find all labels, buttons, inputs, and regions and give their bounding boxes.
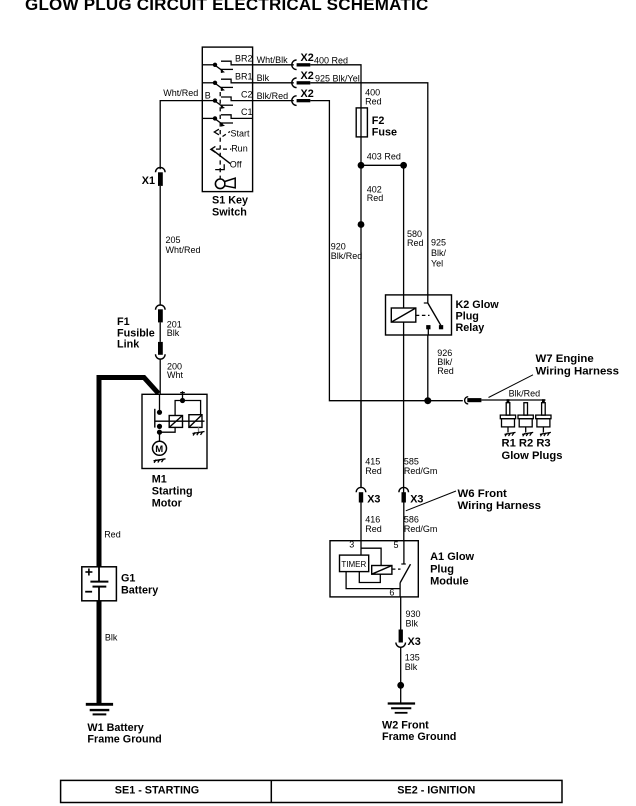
M1 starting motor box xyxy=(142,394,207,468)
svg-text:925 Blk/Yel: 925 Blk/Yel xyxy=(315,74,360,84)
glow plug R2 xyxy=(518,403,533,437)
S1 contact row C2 xyxy=(202,97,252,109)
relay K2 box xyxy=(386,295,452,335)
svg-text:Blk: Blk xyxy=(406,619,419,629)
svg-text:Blk: Blk xyxy=(405,662,418,672)
S1 contact row C1 xyxy=(202,115,252,127)
connector X1 xyxy=(156,167,166,185)
W6 callout line xyxy=(406,491,456,511)
svg-text:X3: X3 xyxy=(408,636,421,648)
svg-text:W7 Engine: W7 Engine xyxy=(536,353,594,365)
wire 416 Red xyxy=(360,503,362,541)
M1 motor chassis ground xyxy=(154,459,166,463)
svg-text:Blk: Blk xyxy=(167,328,180,338)
glow plug R3 xyxy=(536,399,551,436)
wire 930 Blk xyxy=(400,597,402,630)
K2 coil xyxy=(391,295,416,335)
S1 contact row BR2 xyxy=(202,61,252,73)
S1 key symbol xyxy=(215,176,235,188)
svg-text:Wht/Red: Wht/Red xyxy=(166,245,201,255)
svg-text:Wht/Blk: Wht/Blk xyxy=(257,55,289,65)
ground W1 xyxy=(86,704,113,714)
svg-text:Switch: Switch xyxy=(212,206,247,218)
connector X3 right xyxy=(399,487,409,502)
A1 relay coil xyxy=(372,566,392,575)
connector X3 left xyxy=(356,487,366,502)
S1 contact row BR1 xyxy=(202,79,252,91)
svg-text:W6 Front: W6 Front xyxy=(458,488,508,500)
A1 TIMER box xyxy=(340,555,369,572)
svg-text:Red/Gm: Red/Gm xyxy=(404,524,438,534)
table SE1/SE2 xyxy=(61,780,562,802)
wire 415 Red xyxy=(360,401,362,487)
M1 internal input wire xyxy=(155,394,162,427)
ground W2 xyxy=(388,704,415,713)
wire 920 Blk/Red xyxy=(310,101,428,401)
svg-text:Red: Red xyxy=(365,524,382,534)
svg-text:Motor: Motor xyxy=(152,497,183,509)
M1 solenoid coil 1 xyxy=(169,416,182,428)
svg-text:W2 Front: W2 Front xyxy=(382,719,429,731)
connector W7 xyxy=(465,397,482,404)
svg-text:S1 Key: S1 Key xyxy=(212,195,248,207)
K2 dashed link xyxy=(416,314,430,316)
wire 403 Red xyxy=(361,137,404,165)
svg-text:BR2: BR2 xyxy=(235,54,253,64)
svg-text:X2: X2 xyxy=(301,52,314,64)
wire Wht/Red from S1 B terminal to X1 xyxy=(160,101,202,170)
svg-text:Relay: Relay xyxy=(456,322,485,334)
svg-text:Blk/: Blk/ xyxy=(431,248,447,258)
svg-text:Start: Start xyxy=(231,128,251,138)
svg-text:W1 Battery: W1 Battery xyxy=(87,722,143,734)
svg-text:Blk: Blk xyxy=(105,633,118,643)
svg-text:Blk/Red: Blk/Red xyxy=(331,251,363,261)
svg-text:Starting: Starting xyxy=(152,485,193,497)
svg-text:3: 3 xyxy=(349,540,354,550)
svg-text:M: M xyxy=(155,444,163,455)
svg-text:930: 930 xyxy=(406,609,421,619)
svg-text:TIMER: TIMER xyxy=(341,560,366,569)
K2 contact blade xyxy=(424,295,443,335)
wire 580 Red xyxy=(403,165,405,295)
svg-text:Battery: Battery xyxy=(121,584,158,596)
battery cable thick from M1 to battery xyxy=(99,378,159,567)
A1 glow plug module box xyxy=(330,541,418,597)
svg-text:Red: Red xyxy=(365,466,382,476)
S1 selector arrow to Start xyxy=(214,129,230,136)
svg-text:Wiring Harness: Wiring Harness xyxy=(536,365,619,377)
svg-text:205: 205 xyxy=(166,235,181,245)
S1 selector arrow to Run xyxy=(211,146,232,152)
wire 926 Blk/Red xyxy=(427,335,429,401)
svg-text:R1 R2 R3: R1 R2 R3 xyxy=(502,438,551,450)
wire 400 Red horizontal xyxy=(310,65,361,108)
connector X2 row 2 xyxy=(292,78,311,88)
svg-text:Frame Ground: Frame Ground xyxy=(87,734,161,746)
svg-text:X3: X3 xyxy=(367,494,380,506)
svg-text:Plug: Plug xyxy=(456,310,479,322)
svg-text:GLOW PLUG CIRCUIT ELECTRICAL S: GLOW PLUG CIRCUIT ELECTRICAL SCHEMATIC xyxy=(25,0,428,14)
svg-text:Module: Module xyxy=(430,576,469,588)
A1 timer ground leg xyxy=(346,572,400,589)
junction node glow bus xyxy=(424,397,431,404)
svg-text:Frame Ground: Frame Ground xyxy=(382,731,456,743)
svg-text:BR1: BR1 xyxy=(235,72,253,82)
svg-text:Wht/Red: Wht/Red xyxy=(163,88,198,98)
svg-text:Off: Off xyxy=(230,159,242,169)
svg-text:A1 Glow: A1 Glow xyxy=(430,551,474,563)
A1 dashed link xyxy=(392,568,401,570)
svg-text:M1: M1 xyxy=(152,473,167,485)
S1 selector blade to Off xyxy=(212,149,230,169)
svg-text:X3: X3 xyxy=(410,494,423,506)
M1 motor xyxy=(153,441,167,455)
connector X2 row 1 xyxy=(292,60,310,70)
wire C2 Blk/Red to X2 xyxy=(253,100,294,102)
glow plug R1 xyxy=(500,399,515,436)
svg-text:Yel: Yel xyxy=(431,259,443,269)
svg-text:400 Red: 400 Red xyxy=(314,56,348,66)
svg-text:K2 Glow: K2 Glow xyxy=(456,299,500,311)
fuse F2 xyxy=(356,108,367,137)
W7 callout line xyxy=(489,375,534,398)
svg-text:X1: X1 xyxy=(142,175,155,187)
junction node 403 left xyxy=(358,162,365,169)
junction node 402 xyxy=(358,221,365,228)
svg-text:Blk/Red: Blk/Red xyxy=(257,91,289,101)
svg-text:Wiring Harness: Wiring Harness xyxy=(458,500,541,512)
svg-text:Fuse: Fuse xyxy=(372,127,397,139)
connector X3 bottom xyxy=(396,630,406,648)
wire 135 Blk xyxy=(400,647,402,703)
wire BR2 Wht/Blk to X2 xyxy=(253,64,294,66)
svg-text:F2: F2 xyxy=(372,115,385,127)
svg-text:Red: Red xyxy=(437,366,454,376)
junction node W2 xyxy=(397,682,404,689)
S1 key switch box xyxy=(202,47,252,192)
wire Blk/Red glow plug bus xyxy=(481,399,545,401)
wire 586 Red/Gm xyxy=(403,335,405,541)
svg-text:Link: Link xyxy=(117,339,140,351)
svg-text:SE1 - STARTING: SE1 - STARTING xyxy=(115,785,199,797)
svg-text:Red: Red xyxy=(104,529,121,539)
wire to W7 connector xyxy=(428,400,463,402)
svg-text:925: 925 xyxy=(431,237,446,247)
fusible link F1 xyxy=(156,305,166,359)
svg-text:Red: Red xyxy=(407,238,424,248)
battery G1 xyxy=(82,567,117,601)
svg-text:F1: F1 xyxy=(117,316,130,328)
svg-text:5: 5 xyxy=(394,540,399,550)
svg-text:Plug: Plug xyxy=(430,563,454,575)
wire 200 Wht xyxy=(159,359,161,394)
svg-text:403 Red: 403 Red xyxy=(367,151,401,161)
A1 timer feed xyxy=(361,541,381,566)
A1 contact blade xyxy=(400,541,410,597)
wire BR1 Blk to X2 xyxy=(253,82,294,84)
wire 925 Blk/Yel horizontal xyxy=(310,83,428,295)
M1 motor tap xyxy=(157,424,175,442)
svg-text:Red: Red xyxy=(367,193,384,203)
svg-text:G1: G1 xyxy=(121,573,135,585)
svg-text:Blk/Red: Blk/Red xyxy=(509,389,541,399)
svg-text:X2: X2 xyxy=(301,70,314,82)
junction node 403 right xyxy=(400,162,407,169)
M1 solenoid bus line xyxy=(155,420,205,422)
M1 coil feed net xyxy=(175,391,201,415)
connector X2 row 3 xyxy=(292,96,311,106)
battery cable to ground xyxy=(97,601,102,703)
svg-text:B: B xyxy=(205,91,211,101)
svg-text:Run: Run xyxy=(231,144,248,154)
A1 coil to timer loop xyxy=(359,572,380,583)
wire 205 Wht/Red xyxy=(159,186,161,305)
M1 solenoid coil 2 xyxy=(189,415,202,428)
svg-text:Wht: Wht xyxy=(167,370,184,380)
svg-text:SE2 - IGNITION: SE2 - IGNITION xyxy=(397,785,475,797)
svg-text:Red: Red xyxy=(365,96,382,106)
svg-text:Blk: Blk xyxy=(257,73,270,83)
svg-text:Red/Gm: Red/Gm xyxy=(404,466,438,476)
svg-text:C2: C2 xyxy=(241,89,253,99)
wire 402 Red xyxy=(360,165,362,487)
svg-text:C1: C1 xyxy=(241,107,253,117)
svg-text:Glow Plugs: Glow Plugs xyxy=(502,450,563,462)
M1 solenoid chassis ground xyxy=(193,427,205,435)
svg-text:X2: X2 xyxy=(301,88,314,100)
S1 selector dashed shaft xyxy=(219,92,221,177)
